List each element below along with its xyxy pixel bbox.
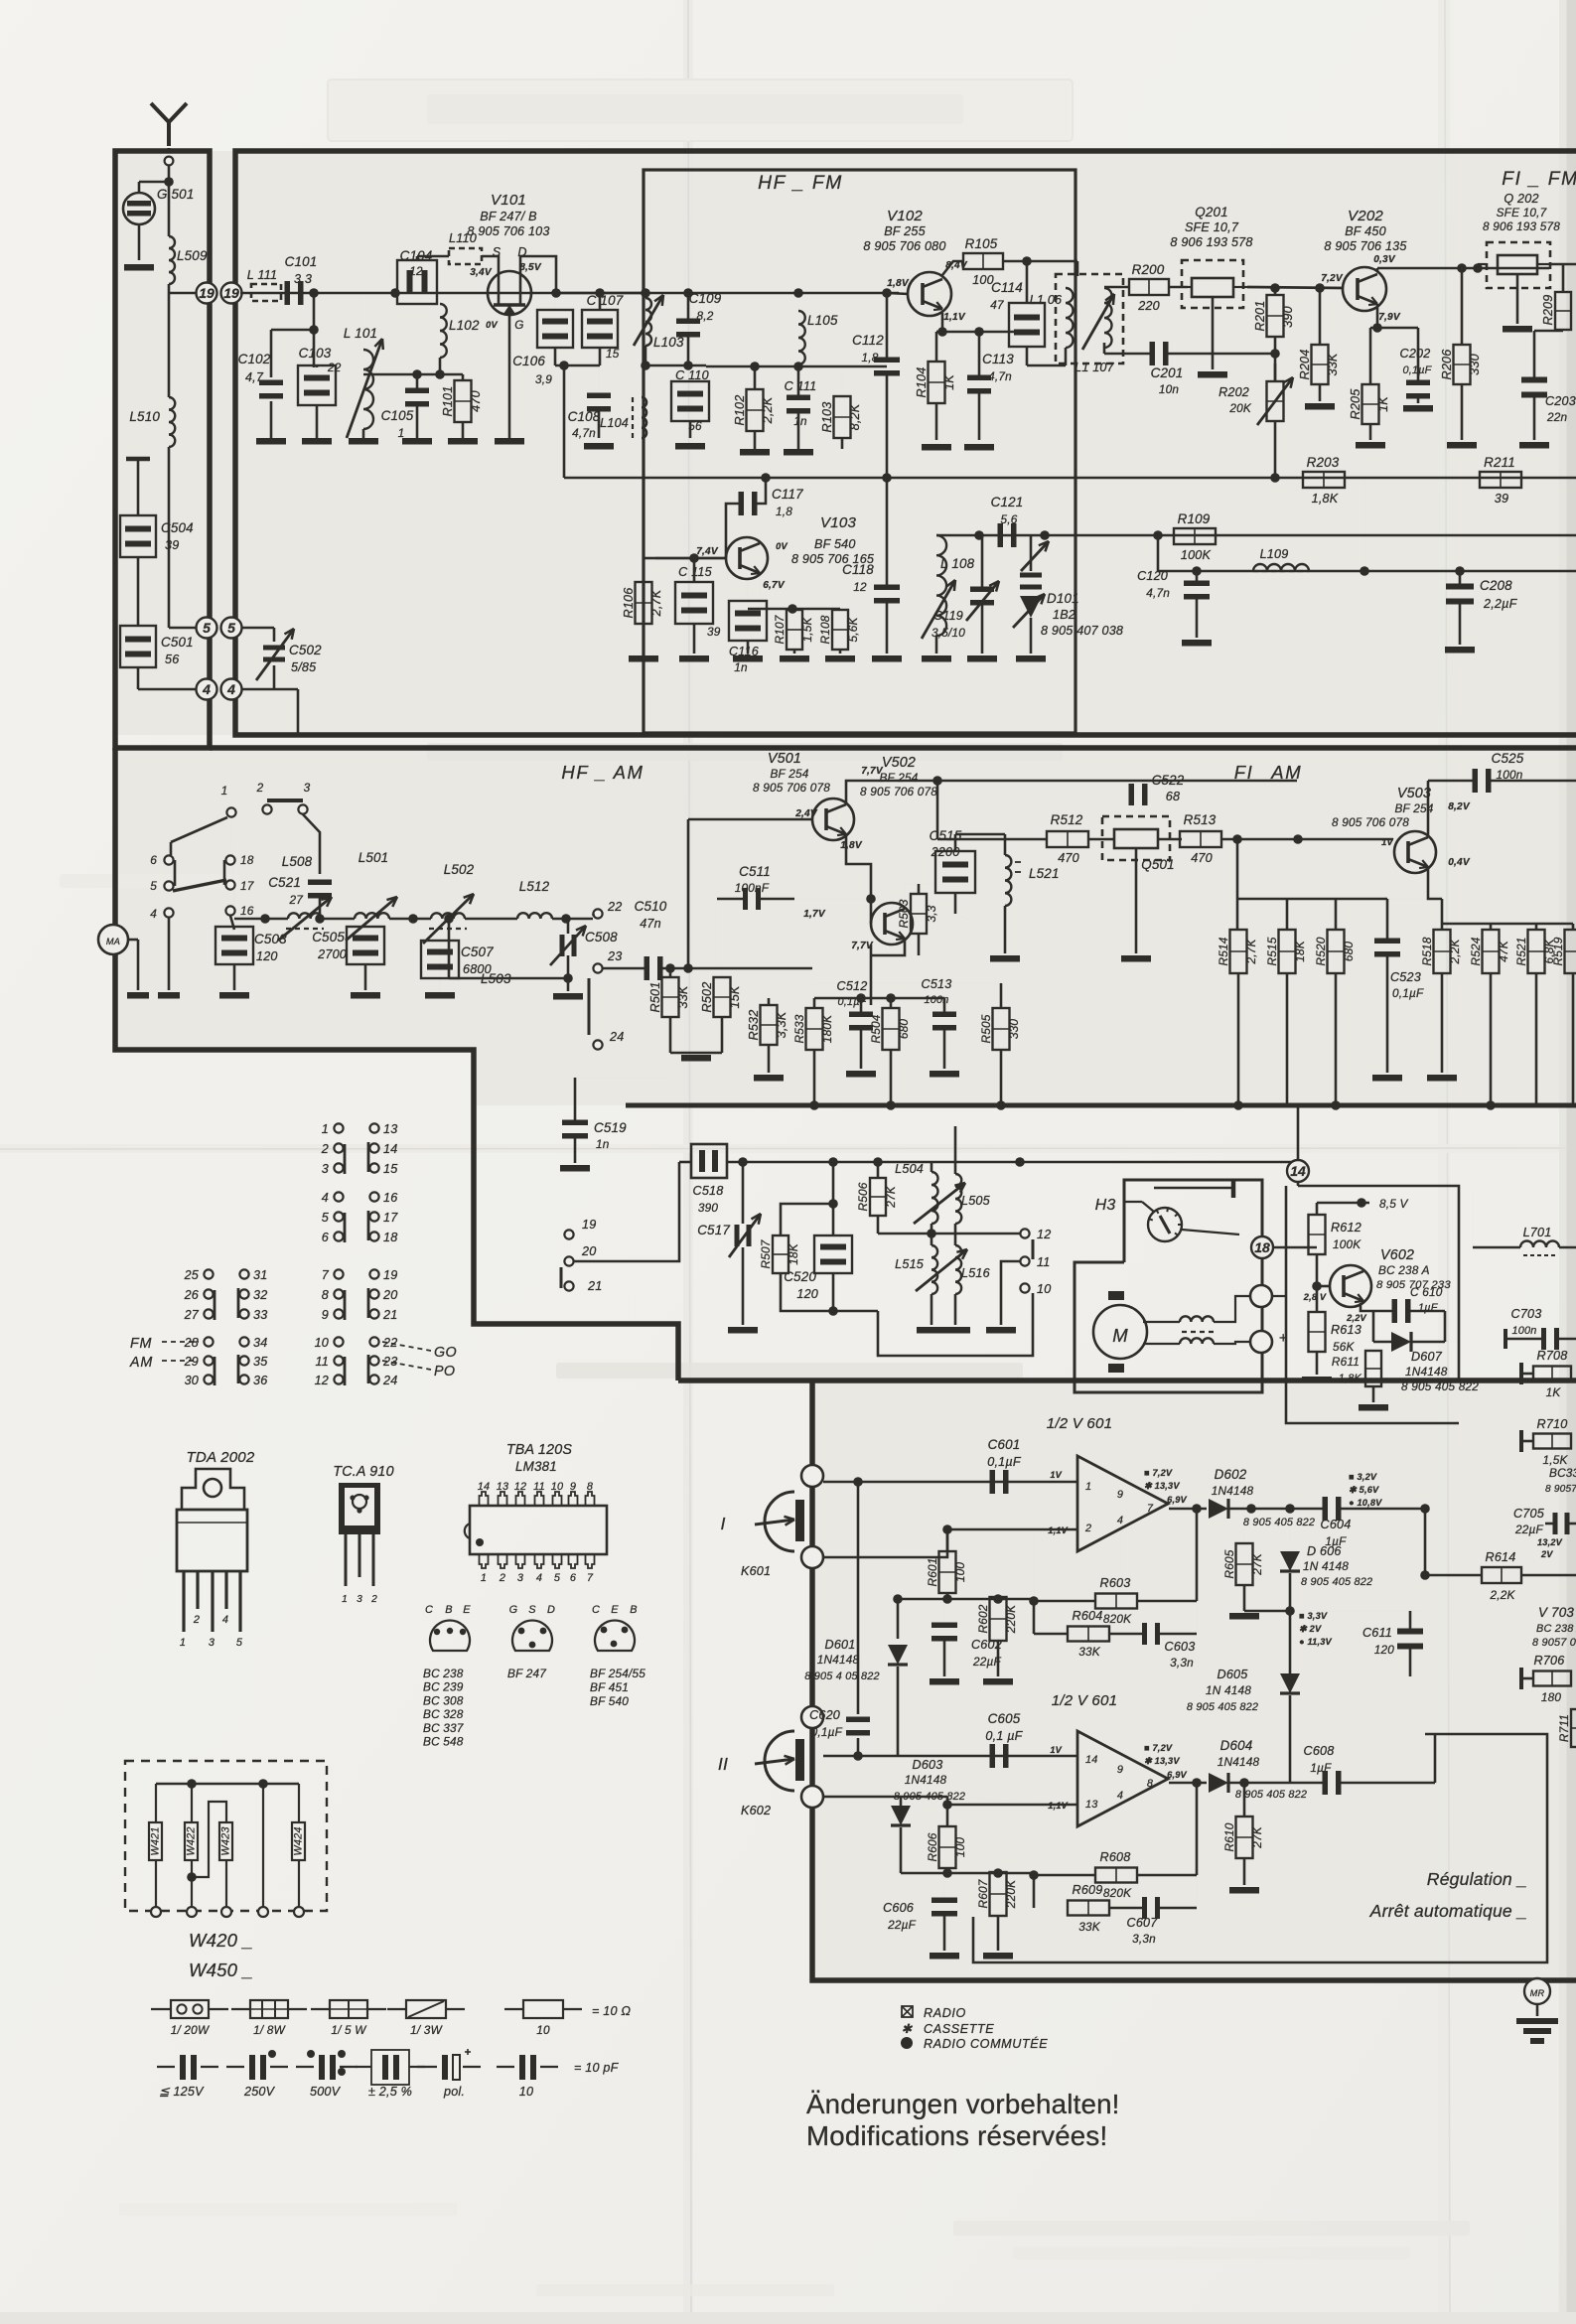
svg-text:L508: L508 (282, 854, 313, 869)
clock symbol (1148, 1208, 1182, 1241)
svg-text:D603: D603 (913, 1758, 943, 1772)
ground pin11 (986, 1327, 1016, 1334)
ghost print bottom (953, 2221, 1470, 2236)
resistor R610 (1236, 1816, 1253, 1858)
svg-text:2,2K: 2,2K (1448, 939, 1462, 965)
variable capacitor C508 (567, 919, 570, 934)
svg-text:C604: C604 (1321, 1518, 1352, 1531)
capacitor C703 (1541, 1328, 1546, 1350)
svg-text:3,3: 3,3 (294, 272, 312, 286)
ground pin4 (158, 992, 180, 999)
capacitor C101 (285, 281, 291, 305)
svg-text:4,7n: 4,7n (1146, 586, 1170, 600)
ground MR (1516, 2018, 1558, 2024)
svg-text:L110: L110 (449, 231, 477, 245)
svg-text:W450 _: W450 _ (189, 1960, 253, 1980)
package TDA2002 body (177, 1510, 247, 1571)
HF_FM box (235, 151, 1576, 735)
svg-text:C202: C202 (1400, 347, 1431, 361)
svg-text:C118: C118 (842, 562, 874, 577)
svg-text:330: 330 (1468, 354, 1482, 375)
diode D603 (891, 1806, 911, 1825)
variable inductor L508 (288, 913, 322, 919)
svg-text:D605: D605 (1218, 1668, 1249, 1681)
svg-text:8,2V: 8,2V (1448, 801, 1471, 812)
svg-text:3,3: 3,3 (925, 905, 938, 922)
svg-text:12: 12 (1037, 1228, 1051, 1241)
svg-text:47K: 47K (1497, 940, 1510, 962)
svg-text:30: 30 (185, 1374, 199, 1387)
W resistor dashed box (125, 1761, 327, 1911)
svg-text:1µF: 1µF (1418, 1302, 1439, 1314)
inductor L515 (931, 1245, 937, 1294)
svg-text:1,1V: 1,1V (943, 312, 966, 323)
svg-text:M: M (1112, 1325, 1128, 1346)
svg-text:D607: D607 (1411, 1350, 1443, 1364)
resistor R605 (1236, 1543, 1253, 1585)
svg-text:C 111: C 111 (785, 379, 817, 393)
svg-text:R101: R101 (441, 386, 455, 417)
svg-text:C: C (425, 1604, 433, 1616)
svg-text:L1 107: L1 107 (1075, 361, 1115, 374)
wire node to rail (1236, 839, 1239, 929)
svg-text:4,7n: 4,7n (988, 369, 1012, 383)
svg-text:7,9V: 7,9V (1378, 312, 1401, 323)
fold crease horizontal (0, 1144, 1576, 1153)
svg-text:13: 13 (497, 1481, 509, 1493)
resistor W421 (155, 1784, 157, 1822)
resistor R710 (1533, 1434, 1571, 1449)
FET V101 (488, 271, 531, 315)
wire V503 emitter (1428, 867, 1442, 899)
svg-text:35: 35 (253, 1355, 268, 1369)
boxed capacitor C106 (537, 310, 573, 348)
svg-text:100n: 100n (924, 994, 948, 1006)
svg-text:C119: C119 (933, 609, 963, 623)
svg-text:R507: R507 (759, 1239, 773, 1268)
boxed capacitor C104 (397, 260, 437, 304)
terminal bar (1154, 1187, 1233, 1190)
wire node5 row (169, 627, 196, 630)
svg-text:D602: D602 (1215, 1467, 1247, 1482)
svg-text:C102: C102 (238, 352, 271, 366)
wire opamp1 out (1169, 1508, 1207, 1511)
wire input II lower to pin13 (823, 1797, 1077, 1805)
legend capacitor 10pF (497, 2066, 514, 2068)
svg-text:4: 4 (536, 1572, 542, 1584)
svg-text:1N4148: 1N4148 (817, 1653, 860, 1667)
capacitor C202 (1406, 380, 1430, 386)
svg-text:8,5V: 8,5V (519, 262, 542, 273)
svg-text:C 107: C 107 (587, 293, 624, 308)
ghost print top (328, 79, 1073, 141)
ground L515 (917, 1327, 946, 1334)
svg-text:R708: R708 (1537, 1349, 1568, 1363)
svg-text:HF _ FM: HF _ FM (758, 173, 843, 194)
svg-text:Modifications réservées!: Modifications réservées! (806, 2120, 1107, 2151)
wire motor to connectors (1143, 1321, 1180, 1323)
svg-text:HF _ AM: HF _ AM (561, 762, 644, 783)
svg-text:✱ 13,3V: ✱ 13,3V (1144, 1481, 1180, 1491)
svg-text:R504: R504 (869, 1014, 883, 1043)
svg-text:1V: 1V (1050, 1745, 1062, 1755)
svg-text:V 703: V 703 (1538, 1605, 1574, 1620)
fold crease vertical left (683, 0, 693, 2324)
wire V101 drain (520, 256, 556, 293)
svg-text:G 501: G 501 (157, 187, 194, 202)
svg-text:36: 36 (253, 1374, 267, 1387)
wire emitter row 930 (1442, 923, 1573, 926)
svg-text:L 111: L 111 (247, 268, 277, 282)
svg-text:0,1µF: 0,1µF (1402, 364, 1432, 376)
ground C208 (1445, 647, 1475, 654)
svg-text:GO: GO (434, 1345, 457, 1361)
svg-text:27K: 27K (1250, 1825, 1264, 1849)
wire lower node (555, 364, 600, 367)
boxed capacitor C504 (120, 515, 156, 557)
transistor V503 (1394, 831, 1436, 873)
svg-text:2: 2 (1084, 1523, 1091, 1534)
svg-text:120: 120 (1374, 1643, 1395, 1657)
inductor L521 (1005, 855, 1011, 906)
svg-text:C606: C606 (883, 1901, 914, 1915)
svg-text:1/ 3W: 1/ 3W (410, 2023, 443, 2037)
svg-text:C513: C513 (922, 977, 952, 991)
svg-text:C502: C502 (289, 643, 322, 657)
resistor R708 (1533, 1367, 1571, 1381)
wire C504-C501 (137, 557, 140, 625)
svg-text:W422: W422 (186, 1826, 198, 1855)
svg-text:R201: R201 (1253, 301, 1267, 332)
AM osc rail (679, 1161, 691, 1164)
resistor R200 (1129, 279, 1169, 295)
feedback loop op1 (1033, 1529, 1035, 1599)
svg-text:5,6K: 5,6K (846, 617, 860, 643)
svg-text:C208: C208 (1480, 578, 1512, 593)
connector circle lower (1250, 1331, 1272, 1353)
svg-text:33K: 33K (1078, 1645, 1101, 1659)
wire R200 to Q201 (1169, 286, 1188, 289)
svg-text:C602: C602 (971, 1638, 1002, 1652)
svg-text:500V: 500V (310, 2085, 342, 2099)
svg-text:3,3n: 3,3n (1132, 1932, 1156, 1946)
svg-text:R514: R514 (1217, 937, 1230, 965)
wire R606 R607 row (901, 1872, 1034, 1875)
transistor V202 (1343, 267, 1386, 311)
svg-text:R613: R613 (1331, 1323, 1361, 1337)
switch pins 18 17 16 (225, 855, 234, 864)
svg-text:W423: W423 (220, 1826, 232, 1855)
inductor L505 coil (955, 1174, 961, 1224)
capacitor C513 (932, 1012, 956, 1018)
legend resistor 1/5W (311, 2008, 330, 2010)
resistor R613 (1309, 1312, 1326, 1352)
terminal 23 (593, 963, 602, 972)
legend resistor 1/3W (387, 2008, 406, 2010)
ground R532 (754, 1075, 784, 1082)
wire V602 emitter (1361, 1303, 1373, 1311)
ground C111 (784, 449, 813, 456)
svg-text:I: I (720, 1514, 725, 1533)
svg-text:✱ 2V: ✱ 2V (1299, 1624, 1322, 1634)
svg-text:C520: C520 (784, 1269, 816, 1284)
resistor R521 (1528, 930, 1545, 973)
svg-text:31: 31 (253, 1268, 267, 1282)
svg-text:R524: R524 (1469, 937, 1483, 965)
ground C505 (351, 992, 380, 999)
svg-text:8 905 405 822: 8 905 405 822 (1401, 1380, 1479, 1393)
terminal 19 (564, 1230, 573, 1238)
wire V102 emitter (936, 313, 942, 332)
svg-text:8 906 193 578: 8 906 193 578 (1483, 219, 1560, 233)
resistor R105 (963, 253, 1003, 269)
svg-text:C 110: C 110 (675, 368, 709, 382)
ground osc vertical (940, 1327, 970, 1334)
svg-text:33: 33 (253, 1308, 267, 1322)
wire V503 collector (1427, 781, 1430, 837)
ground C503 (219, 992, 249, 999)
varactor diode D101 (1030, 535, 1033, 571)
svg-text:✱ 13,3V: ✱ 13,3V (1144, 1756, 1180, 1766)
svg-text:100nF: 100nF (735, 881, 770, 895)
inductor L701 (1520, 1241, 1559, 1248)
svg-text:1,8V: 1,8V (887, 278, 910, 289)
svg-text:21: 21 (587, 1279, 602, 1293)
terminal 10 (1020, 1283, 1029, 1292)
svg-text:820K: 820K (1103, 1612, 1132, 1626)
svg-text:8 905 706 080: 8 905 706 080 (863, 239, 945, 253)
wire V202 collector (1364, 268, 1377, 274)
svg-text:● 11,3V: ● 11,3V (1299, 1637, 1333, 1647)
svg-text:4,7n: 4,7n (572, 426, 596, 440)
wire 18 to V602 (1273, 1246, 1317, 1249)
svg-text:3,4V: 3,4V (470, 267, 493, 278)
svg-text:C525: C525 (1492, 751, 1524, 766)
HF_FM inner oscillator box (644, 170, 1075, 733)
svg-text:5: 5 (203, 620, 211, 636)
svg-text:R519: R519 (1551, 937, 1565, 965)
inductor L509 (169, 236, 175, 284)
svg-text:C518: C518 (693, 1184, 724, 1198)
coupling C620 (857, 1482, 860, 1714)
svg-text:C507: C507 (461, 944, 494, 959)
switch pins 1 2 3 (226, 807, 235, 816)
svg-text:BF 247/ B: BF 247/ B (480, 210, 537, 223)
wire below 4 (274, 688, 298, 691)
svg-text:2,2V: 2,2V (1346, 1313, 1366, 1323)
svg-text:≦ 125V: ≦ 125V (159, 2085, 205, 2099)
svg-text:1n: 1n (596, 1137, 610, 1151)
svg-text:C620: C620 (809, 1708, 840, 1722)
svg-text:2,7K: 2,7K (649, 589, 663, 617)
svg-text:BF 255: BF 255 (884, 224, 926, 238)
svg-text:8: 8 (1147, 1778, 1153, 1790)
svg-text:1: 1 (481, 1572, 487, 1584)
svg-text:C501: C501 (161, 635, 194, 650)
svg-text:R205: R205 (1349, 388, 1362, 420)
svg-text:TC.A 910: TC.A 910 (333, 1464, 393, 1480)
ground R610 (1229, 1887, 1259, 1894)
junctions rail 481 (761, 473, 771, 483)
capacitor C109 (676, 319, 700, 325)
HF_AM top edge (210, 745, 1576, 751)
ground R101 (448, 438, 478, 445)
svg-text:12: 12 (853, 580, 867, 594)
diode D601 (897, 1599, 900, 1639)
terminal 12 (1020, 1229, 1029, 1237)
wire L1107 to R200 (1104, 286, 1129, 289)
resistor R205 (1362, 384, 1379, 424)
boxed capacitor C114 (1009, 303, 1045, 347)
svg-text:R711: R711 (1557, 1714, 1571, 1742)
junction drain rail C107 (595, 288, 605, 298)
ground R206 (1447, 442, 1477, 449)
svg-text:FI _ FM: FI _ FM (1502, 169, 1576, 190)
svg-text:10n: 10n (1159, 382, 1180, 396)
ghost print mid (427, 743, 1063, 761)
svg-text:W424: W424 (293, 1826, 305, 1855)
svg-text:470: 470 (1058, 851, 1079, 865)
svg-text:R501: R501 (648, 982, 662, 1013)
ground C110 (675, 443, 705, 450)
svg-text:470: 470 (469, 390, 483, 412)
svg-text:14: 14 (478, 1481, 491, 1493)
wire V101 gate ground (508, 316, 511, 438)
svg-text:3: 3 (357, 1594, 362, 1605)
ground R108 (825, 655, 855, 662)
wire MA pin4 (128, 939, 138, 942)
ground C512 (846, 1071, 876, 1078)
switch bracket 11-12 (1032, 1239, 1035, 1259)
svg-text:14: 14 (383, 1142, 397, 1156)
legend capacitor pol (417, 2066, 437, 2068)
svg-text:24: 24 (382, 1374, 397, 1387)
resistor R602 (990, 1597, 1007, 1641)
svg-text:8 906 193 578: 8 906 193 578 (1170, 235, 1252, 249)
svg-text:R710: R710 (1537, 1417, 1568, 1431)
ground R104 (922, 444, 951, 451)
wire V502 emitter (871, 939, 905, 955)
resistor R206 (1454, 345, 1471, 384)
svg-text:1N 4148: 1N 4148 (1303, 1559, 1349, 1573)
svg-text:R202: R202 (1218, 385, 1249, 399)
ground C523 (1372, 1075, 1402, 1082)
capacitor C511 (743, 888, 748, 910)
switch bracket 18-17 (223, 860, 226, 885)
wire input I lower to pin2 (823, 1529, 1077, 1557)
wire V502 collector (905, 884, 937, 909)
svg-text:L505: L505 (961, 1194, 991, 1208)
svg-text:C201: C201 (1151, 365, 1184, 380)
capacitor C111 (787, 395, 810, 401)
svg-text:C607: C607 (1127, 1916, 1159, 1930)
svg-text:C608: C608 (1304, 1744, 1335, 1758)
pinout circle BC types (430, 1620, 470, 1651)
svg-text:3: 3 (517, 1572, 523, 1584)
input pot K602 (801, 1706, 823, 1728)
diode D605 (1280, 1673, 1300, 1693)
junction dots rail 1113 (809, 1100, 819, 1110)
svg-text:4: 4 (1117, 1790, 1123, 1802)
wire pin20 to C518 rail (574, 1162, 679, 1261)
ground L101 (349, 438, 378, 445)
svg-text:R609: R609 (1073, 1883, 1103, 1897)
svg-text:R603: R603 (1100, 1576, 1131, 1590)
svg-text:SFE 10,7: SFE 10,7 (1185, 220, 1239, 234)
MA motor antenna (98, 925, 128, 954)
resistor R503 (911, 894, 927, 934)
svg-text:8 905 706 078: 8 905 706 078 (860, 785, 937, 799)
transistor V502 (871, 903, 913, 944)
svg-text:15: 15 (606, 347, 620, 361)
svg-text:27K: 27K (884, 1185, 898, 1209)
wire V202 emitter (1376, 304, 1379, 328)
svg-text:R506: R506 (856, 1182, 870, 1211)
svg-text:15K: 15K (728, 985, 742, 1008)
svg-text:1,8V: 1,8V (840, 840, 863, 851)
main FM rail (240, 292, 899, 295)
svg-text:BF 540: BF 540 (590, 1694, 629, 1708)
svg-text:2: 2 (321, 1142, 329, 1156)
svg-text:3,9: 3,9 (535, 372, 552, 386)
svg-text:7,2V: 7,2V (1321, 273, 1344, 284)
inductor L102 (440, 304, 447, 358)
wire 14 to V602 box (1298, 1186, 1459, 1380)
svg-text:16: 16 (240, 904, 254, 918)
resistor R103 (834, 396, 851, 438)
wire pin11 to ground (1001, 1261, 1020, 1325)
svg-text:AM: AM (129, 1355, 153, 1371)
svg-text:7: 7 (587, 1572, 594, 1584)
ground C103 (302, 438, 332, 445)
wire V501 coll to R512 (936, 781, 939, 839)
capacitor C521 (308, 880, 332, 886)
svg-text:6,9V: 6,9V (1167, 1770, 1187, 1780)
capacitor C105 (405, 388, 429, 394)
ground R605 (1229, 1613, 1259, 1620)
boxed capacitor C505 (347, 927, 384, 964)
transistor V103 (726, 537, 768, 579)
svg-text:1,5K: 1,5K (800, 617, 814, 643)
wire L106 cross (1027, 364, 1066, 367)
resistor W424 (298, 1784, 300, 1822)
svg-text:100: 100 (953, 1562, 967, 1583)
resistor R608 (1095, 1868, 1137, 1883)
svg-text:Q201: Q201 (1195, 205, 1228, 219)
wire V602 collector (1361, 1203, 1362, 1268)
resistor R506 (870, 1178, 886, 1216)
inductor L110 feedthrough (449, 248, 482, 264)
wire C608 to sub box (1434, 1734, 1437, 1783)
svg-text:16: 16 (383, 1191, 397, 1205)
legend capacitor 500V (296, 2066, 314, 2068)
svg-text:= 10 pF: = 10 pF (574, 2061, 620, 2075)
svg-text:20K: 20K (1228, 401, 1252, 415)
boxed capacitor C103 (298, 365, 336, 405)
svg-text:3: 3 (209, 1637, 215, 1649)
svg-text:1N4148: 1N4148 (1405, 1365, 1448, 1379)
svg-text:100: 100 (953, 1837, 967, 1858)
box tint HF_AM / FI_AM (115, 748, 1576, 1050)
svg-text:C611: C611 (1362, 1626, 1392, 1640)
svg-text:R503: R503 (897, 899, 911, 928)
svg-text:Arrêt automatique _: Arrêt automatique _ (1369, 1901, 1527, 1921)
wire drain rail (556, 292, 644, 295)
svg-text:100n: 100n (1496, 768, 1522, 782)
wire D605 node (1244, 1610, 1290, 1613)
svg-text:26: 26 (184, 1288, 199, 1302)
svg-text:56K: 56K (1333, 1340, 1356, 1354)
